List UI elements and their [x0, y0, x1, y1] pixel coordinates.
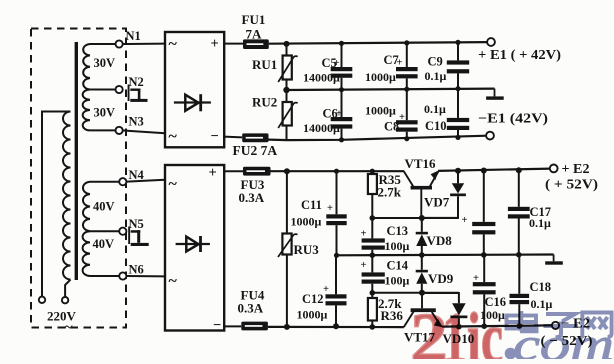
capacitor C16 100u	[483, 255, 485, 282]
svg-text:1000μ: 1000μ	[365, 104, 396, 118]
capacitor C13 100u	[371, 218, 373, 238]
transformer core	[75, 42, 78, 280]
svg-text:1ic: 1ic	[442, 298, 503, 359]
svg-text:40V: 40V	[93, 200, 115, 214]
wire N3 to bridge 1	[123, 130, 165, 133]
capacitor C5 14000u	[339, 41, 344, 46]
wire primary right lead	[65, 280, 70, 297]
wire +52V rail (left of VT16)	[271, 170, 405, 172]
svg-text:C14: C14	[387, 259, 409, 273]
capacitor C14 100u	[371, 255, 373, 272]
svg-text:100μ: 100μ	[385, 239, 410, 253]
svg-text:0.3A: 0.3A	[238, 301, 264, 316]
terminal +E2	[550, 165, 558, 173]
diode VD7	[455, 168, 461, 174]
svg-text:+: +	[336, 109, 342, 120]
svg-text:R36: R36	[381, 308, 404, 323]
wire bridge1 - output	[224, 136, 242, 139]
svg-text:+: +	[361, 260, 367, 271]
svg-text:0.1μ: 0.1μ	[529, 216, 551, 230]
svg-text:C9: C9	[428, 55, 443, 69]
wire N1 to bridge 1	[123, 43, 165, 45]
svg-text:100μ: 100μ	[385, 274, 410, 288]
capacitor C17 0.1u	[516, 167, 522, 173]
svg-text:7A: 7A	[246, 27, 263, 42]
wire N4 to bridge 2	[126, 180, 165, 182]
wire +42V top rail	[269, 42, 488, 44]
svg-text:~: ~	[169, 176, 178, 193]
transformer secondary winding 30V (N2-N3)	[83, 90, 90, 131]
transistor VT17	[411, 308, 436, 312]
wire N6 to bridge 2	[126, 275, 165, 277]
node N5	[119, 228, 126, 235]
transformer secondary winding 40V (N5-N6)	[83, 231, 90, 276]
terminal -E2	[552, 322, 559, 329]
wire tap N4	[90, 181, 119, 183]
terminal -E1	[486, 132, 494, 140]
svg-text:VD8: VD8	[427, 233, 453, 248]
capacitor C10 0.1u	[457, 89, 459, 118]
svg-text:30V: 30V	[94, 106, 116, 120]
svg-text:VD9: VD9	[428, 271, 454, 286]
capacitor C12 1000u	[335, 255, 337, 294]
capacitor C6 14000u	[341, 90, 343, 117]
svg-text:−: −	[211, 129, 219, 145]
diode VD8	[421, 218, 423, 232]
wire tap N6	[90, 275, 119, 277]
svg-text:30V: 30V	[94, 56, 116, 70]
wire -42V bottom rail	[269, 136, 488, 140]
resistor R35 2.7k	[370, 169, 375, 174]
wire -52V rail (right of VT17)	[442, 325, 552, 326]
node N1	[116, 40, 123, 47]
svg-text:C8: C8	[384, 120, 399, 134]
svg-text:+: +	[399, 112, 405, 123]
chassis ground (42V common)	[494, 89, 496, 97]
wire primary left lead	[42, 112, 71, 297]
svg-text:C11: C11	[301, 198, 322, 212]
capacitor C15 100u (unlabeled)	[481, 168, 487, 174]
fuse FU1 7A	[243, 39, 269, 49]
svg-text:+: +	[334, 58, 340, 69]
resistor RU2	[286, 90, 288, 102]
svg-text:1000μ: 1000μ	[291, 215, 322, 229]
svg-text:( + 52V): ( + 52V)	[545, 177, 598, 192]
svg-text:+: +	[473, 273, 479, 284]
wire 0V middle rail (52V)	[337, 253, 554, 256]
bridge 2 diode symbol	[176, 243, 210, 245]
svg-text:FU2 7A: FU2 7A	[233, 143, 278, 158]
wire tap N1	[90, 43, 116, 45]
svg-text:+: +	[327, 203, 333, 214]
bridge rectifier U2 (bottom)	[165, 165, 224, 331]
bridge 1 diode symbol	[174, 101, 211, 103]
svg-text:C13: C13	[387, 224, 409, 238]
svg-text:+: +	[397, 58, 403, 69]
resistor RU3	[286, 171, 288, 233]
wire -52V rail (left of VT17)	[268, 326, 404, 328]
svg-text:40V: 40V	[93, 237, 115, 251]
wire bridge2 - output	[224, 325, 241, 327]
svg-text:+: +	[211, 36, 219, 52]
shield ground at N5	[128, 227, 130, 245]
terminal +E1	[487, 38, 495, 46]
wire tap N5	[90, 230, 119, 232]
svg-text:1000μ: 1000μ	[365, 70, 396, 84]
svg-text:RU2: RU2	[252, 95, 277, 110]
svg-text:N5: N5	[129, 217, 144, 231]
capacitor C7 1000u	[404, 40, 409, 45]
svg-text:FU1: FU1	[242, 12, 266, 27]
svg-text:~: ~	[169, 128, 178, 145]
svg-text:RU3: RU3	[294, 242, 320, 257]
transformer secondary winding 40V (N4-N5)	[83, 182, 90, 232]
svg-text:+: +	[209, 165, 217, 181]
svg-text:−: −	[213, 318, 221, 334]
node N6	[119, 272, 126, 279]
svg-text:N2: N2	[129, 75, 144, 89]
svg-text:N6: N6	[129, 263, 144, 277]
wire bridge1 + output	[224, 43, 243, 45]
node N3	[116, 127, 123, 134]
fuse FU3 0.3A	[243, 167, 271, 176]
wire 0V middle rail (42V)	[287, 89, 495, 90]
node junction FU3/RU3	[284, 168, 290, 174]
transformer primary winding	[63, 112, 70, 280]
capacitor C8 1000u	[406, 89, 408, 120]
wire tap N2	[90, 89, 116, 91]
svg-text:+ E2: + E2	[562, 161, 590, 176]
svg-text:14000μ: 14000μ	[303, 71, 340, 85]
capacitor C18 0.1u	[518, 255, 520, 294]
wire +52V rail (right of VT16)	[438, 169, 550, 171]
svg-text:+: +	[323, 284, 329, 295]
svg-text:~: ~	[65, 319, 73, 336]
svg-text:14000μ: 14000μ	[303, 121, 340, 135]
terminal 220V left	[39, 297, 45, 303]
diode VD10	[422, 293, 459, 303]
fuse FU4 0.3A	[241, 322, 268, 331]
node junction FU1/RU1	[284, 41, 290, 47]
svg-text:0.1μ: 0.1μ	[531, 297, 553, 311]
svg-text:+: +	[462, 215, 468, 226]
watermark 21ic.com dianziwang	[410, 298, 614, 364]
svg-text:VT16: VT16	[405, 156, 437, 171]
svg-text:0.1μ: 0.1μ	[424, 102, 446, 116]
wire VT17 base line	[372, 292, 459, 294]
svg-text:−E1 (42V): −E1 (42V)	[478, 111, 548, 126]
svg-text:VD7: VD7	[424, 195, 450, 210]
shield ground at N2	[128, 85, 130, 102]
svg-text:C18: C18	[530, 280, 552, 294]
wire VT16 base line	[372, 217, 458, 219]
fuse FU2 7A	[242, 133, 268, 142]
svg-text:+ E1 ( + 42V): + E1 ( + 42V)	[478, 47, 561, 62]
svg-text:2.7k: 2.7k	[378, 185, 402, 200]
svg-text:RU1: RU1	[252, 57, 277, 72]
resistor RU1	[286, 44, 288, 56]
capacitor C11 1000u	[334, 169, 339, 174]
transformer secondary winding 30V (N1-N2)	[83, 44, 90, 90]
svg-text:C10: C10	[425, 119, 447, 133]
node junction RU1/RU2	[283, 87, 289, 93]
capacitor C9 0.1u	[455, 40, 460, 45]
wire bridge2 + output	[224, 170, 243, 172]
svg-text:C12: C12	[302, 292, 324, 306]
transformer T1 dashed enclosure	[31, 29, 126, 328]
svg-text:N4: N4	[129, 168, 145, 182]
svg-text:N1: N1	[126, 29, 141, 43]
svg-text:1000μ: 1000μ	[297, 308, 328, 322]
bridge rectifier U1 (top)	[165, 32, 224, 147]
diode VD9	[421, 255, 423, 270]
chassis ground (52V common)	[553, 255, 555, 262]
terminal 220V right	[62, 297, 68, 303]
node junction RU3 bottom	[284, 324, 290, 330]
svg-text:+: +	[361, 229, 367, 240]
svg-text:~: ~	[169, 36, 178, 53]
node N2	[116, 86, 123, 93]
svg-text:0.1μ: 0.1μ	[425, 69, 447, 83]
svg-text:~: ~	[169, 273, 178, 290]
wire tap N3	[90, 129, 116, 131]
resistor R36 2.7k	[371, 293, 373, 298]
svg-text:N3: N3	[129, 115, 144, 129]
svg-text:0.3A: 0.3A	[239, 190, 265, 205]
node N4	[119, 178, 126, 185]
